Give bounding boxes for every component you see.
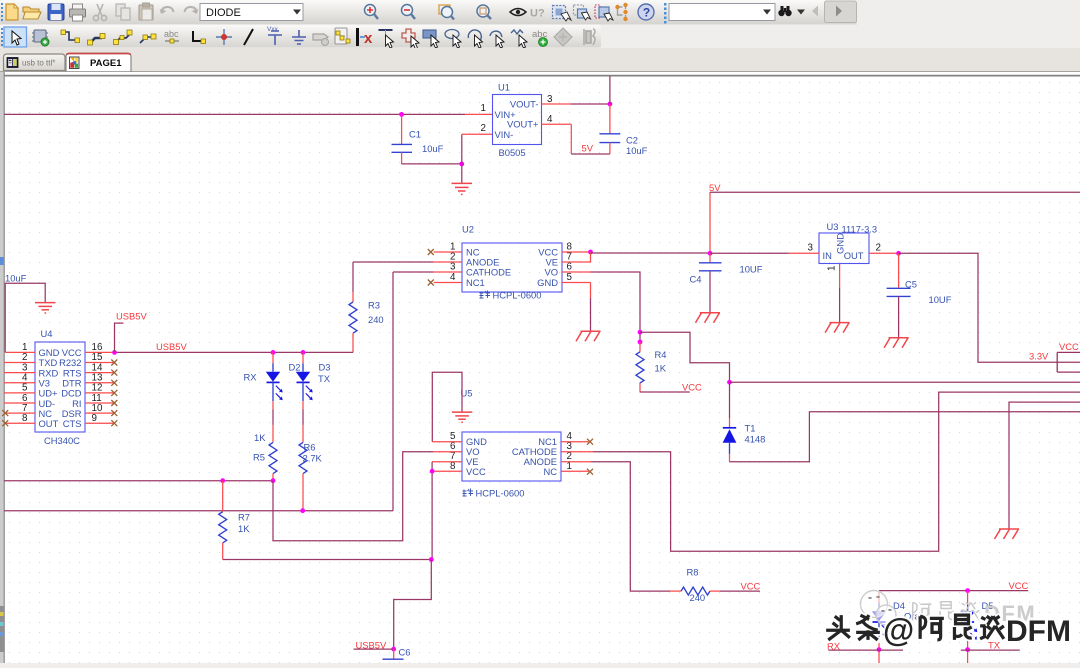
- node junction USB5V label: [112, 350, 117, 355]
- wire long to right edge (row 382): [730, 381, 1080, 383]
- svg-text:4: 4: [547, 114, 553, 125]
- wire U3 out to 3.3V box: [899, 253, 1080, 362]
- pin 1 U2 stub: [434, 251, 462, 253]
- svg-text:DFM: DFM: [1006, 615, 1071, 648]
- node junction VCC/VE: [588, 250, 593, 255]
- wire T1 bottom loop to right edge (row 412): [730, 412, 1080, 462]
- svg-text:USB5V: USB5V: [156, 341, 187, 352]
- svg-text:1: 1: [481, 103, 486, 114]
- capacitor C4: [690, 253, 763, 312]
- icon: paste (disabled): [139, 3, 153, 20]
- svg-text:2: 2: [481, 123, 486, 134]
- wire C4 to U3 pin3: [710, 252, 789, 254]
- wire VO right and down: [591, 272, 641, 332]
- icon: junction: [216, 29, 232, 45]
- wire down to USB5V bottom: [394, 560, 432, 650]
- icon: wire: [61, 30, 80, 43]
- svg-text:PAGE1: PAGE1: [90, 58, 122, 69]
- capacitor C6 (partial at bottom): [383, 646, 411, 659]
- net TX stub: [961, 649, 1020, 651]
- icon: print: [70, 4, 86, 21]
- svg-text:CH340C: CH340C: [44, 435, 80, 446]
- wire VCC row bottom right: [879, 590, 1028, 592]
- icon: slash line: [244, 29, 253, 45]
- ground symbol (slant) right: [995, 529, 1020, 539]
- ground symbol (slant) below C4: [696, 313, 721, 323]
- pin 1 U4 stub: [5, 351, 35, 353]
- no-connect X pin4 U5: [587, 439, 593, 445]
- net 5V right: vertical: [709, 192, 711, 253]
- LED D4: [872, 591, 921, 663]
- svg-text:U?: U?: [530, 8, 545, 20]
- icon: gnd port: [292, 30, 306, 44]
- pin 6 U2 stub: [562, 271, 591, 273]
- svg-text:2: 2: [876, 243, 881, 254]
- combobox find: [669, 4, 775, 21]
- svg-text:1K: 1K: [238, 523, 250, 534]
- wire ANODE from R3 column: [353, 261, 434, 263]
- svg-text:C2: C2: [626, 135, 638, 146]
- capacitor C5: [887, 253, 952, 337]
- svg-text:OUT: OUT: [39, 418, 59, 429]
- pin 7 U5 stub: [432, 461, 462, 463]
- wire U5 VE/VCC column down: [431, 462, 433, 560]
- wire CATHODE from x393 column: [393, 271, 434, 273]
- icon: L wire: [193, 31, 206, 44]
- wire to ground below C1: [461, 164, 463, 183]
- net VCC stub right of R8: [720, 590, 760, 592]
- wire RX row to left edge: [4, 480, 273, 482]
- wire GND U2 down: [590, 283, 592, 299]
- inactive tab: usb to ttl*: [4, 54, 66, 71]
- pin 5 U4 wire: [4, 392, 35, 394]
- svg-text:8: 8: [450, 461, 456, 472]
- sheet top border: [4, 75, 1080, 77]
- icon: netlabel abc: [164, 29, 179, 43]
- wire TX row to left edge: [4, 510, 393, 512]
- icon: binoculars: [778, 6, 791, 16]
- svg-text:10UF: 10UF: [740, 264, 763, 275]
- svg-text:6: 6: [567, 262, 573, 273]
- label U2 (CJK fake glyphs + HCPL-0600): [480, 290, 542, 301]
- svg-text:B0505: B0505: [499, 147, 526, 158]
- wire C2 node up to sheet top: [609, 76, 611, 104]
- pin 8 U4 stub with no-connect X: [6, 422, 35, 424]
- icon: zoom region: [439, 5, 454, 20]
- svg-text:USB5V: USB5V: [116, 311, 147, 322]
- svg-text:USB5V: USB5V: [356, 639, 387, 650]
- svg-text:T1: T1: [745, 423, 756, 434]
- node junction D3 top: [301, 350, 306, 355]
- svg-text:DIODE: DIODE: [206, 7, 241, 19]
- icon: copy (disabled): [116, 4, 130, 20]
- net 5V right: long horizontal to edge: [710, 191, 1080, 193]
- svg-text:10uF: 10uF: [5, 273, 27, 284]
- icon: bus: [88, 34, 106, 46]
- main watermark: white glow layer: [826, 615, 1004, 640]
- svg-text:U4: U4: [41, 328, 53, 339]
- wire USB5V row (U4 pin16 to R3 bottom): [115, 351, 354, 353]
- svg-text:abc: abc: [164, 29, 179, 39]
- icon: redo (disabled): [185, 7, 199, 14]
- svg-text:x: x: [364, 30, 373, 47]
- icon: zoom fit: [477, 5, 491, 19]
- svg-text:8: 8: [22, 413, 28, 424]
- svg-text:Vxx: Vxx: [267, 26, 279, 33]
- icon: paste selection: [595, 5, 613, 21]
- icon: bracket group (disabled): [584, 29, 595, 45]
- svg-text:R4: R4: [655, 349, 667, 360]
- icon: zoom out: [402, 5, 416, 20]
- wire pin4 down and right (5V): [570, 124, 572, 154]
- svg-text:10uF: 10uF: [422, 143, 444, 154]
- no-connect X pin1 U2: [428, 249, 434, 255]
- pin 1 U5 stub: [561, 470, 590, 472]
- svg-text:TX: TX: [988, 640, 1001, 651]
- no-connect X pin1 U5: [587, 469, 593, 475]
- svg-text:NC1: NC1: [466, 277, 485, 288]
- net RX stub: [828, 649, 903, 651]
- node junction R7 top: [220, 478, 225, 483]
- icon: eye: [510, 9, 526, 16]
- svg-text:3.3V: 3.3V: [1029, 351, 1049, 362]
- icon: zoom in: [365, 5, 379, 20]
- wire U5 GND hook: [432, 372, 462, 441]
- wire ANODE net down to R8: [591, 462, 670, 591]
- icon: diamond (disabled): [554, 28, 572, 46]
- icon: new document: [6, 4, 18, 20]
- capacitor C2: [600, 104, 648, 156]
- icon: undo (disabled): [160, 7, 174, 14]
- svg-text:CTS: CTS: [63, 418, 82, 429]
- svg-text:240: 240: [368, 314, 384, 325]
- node junction U3 out / C5: [896, 251, 901, 256]
- pin 5 U5 stub: [432, 441, 462, 443]
- dotted separator: [664, 3, 667, 24]
- node junction D2 top: [271, 350, 276, 355]
- pin 8 U2 stub: [562, 251, 591, 253]
- svg-text:5V: 5V: [582, 143, 594, 154]
- svg-text:RX: RX: [244, 372, 258, 383]
- pin 2 U4 wire: [4, 362, 35, 364]
- resistor R5: [253, 432, 277, 481]
- active tab: PAGE1: [66, 53, 131, 72]
- connector box at right edge: [1057, 352, 1080, 372]
- optocoupler U5 HCPL-0600: [450, 431, 572, 481]
- wire row 402 from right edge to ground: [1009, 402, 1080, 529]
- node junction R6 bottom: [300, 508, 305, 513]
- svg-text:5: 5: [567, 272, 573, 283]
- left panel strip: [0, 606, 4, 652]
- svg-text:1K: 1K: [254, 432, 266, 443]
- svg-text:HCPL-0600: HCPL-0600: [493, 290, 542, 301]
- forward arrow button: [825, 1, 857, 23]
- svg-text:10UF: 10UF: [929, 294, 952, 305]
- svg-text:VCC: VCC: [682, 382, 702, 393]
- svg-text:VOUT-: VOUT-: [510, 99, 539, 110]
- pin 7 U4 stub with no-connect X: [6, 412, 35, 414]
- svg-text:4: 4: [450, 272, 456, 283]
- wire R5 net to U5 VO: [273, 452, 434, 541]
- LED D2: [244, 352, 301, 442]
- wire R7 bottom row: [223, 559, 432, 561]
- svg-text:VCC: VCC: [741, 581, 761, 592]
- pin 2 U5 stub: [561, 461, 591, 463]
- icon: power port: [267, 26, 282, 45]
- ground symbol (bar style) U5: [452, 412, 473, 422]
- svg-text:D3: D3: [319, 361, 331, 372]
- pin 2 U2 stub: [434, 261, 462, 263]
- capacitor 10uF at U4 pin1: [5, 273, 56, 353]
- IC U4 CH340C: [22, 328, 103, 446]
- svg-text:usb to ttl*: usb to ttl*: [22, 59, 55, 68]
- LED D3: [296, 352, 331, 442]
- ground symbol (bar style): [452, 183, 473, 194]
- resistor R8: [670, 566, 720, 603]
- regulator U3 1117-3.3: [808, 221, 881, 271]
- svg-text:GND: GND: [835, 233, 846, 254]
- wire VIN+ long horizontal: [4, 113, 465, 115]
- icon: sheet with polyline: [335, 28, 350, 44]
- svg-text:TX: TX: [318, 373, 331, 384]
- main watermark: dark strokes: [826, 615, 1004, 640]
- LED D5: [960, 591, 993, 663]
- wire C1 bottom to VIN-: [402, 163, 462, 165]
- icon: hierarchy: [615, 3, 627, 21]
- wire pin3 to C2 node: [571, 103, 610, 105]
- svg-text:R8: R8: [687, 566, 699, 577]
- node junction C1/VIN+: [399, 112, 404, 117]
- ghost watermark text (CJK approx + DFM): [913, 601, 1036, 626]
- pin 5 U2 stub: [562, 282, 591, 284]
- no-connect X pin4 U2: [428, 280, 434, 286]
- ground symbol (slant) below U3: [825, 323, 850, 333]
- net USB5V bottom stub: [354, 648, 394, 650]
- node junction VIN- / ground: [459, 162, 464, 167]
- icon: net identifier oval (grey): [313, 34, 329, 46]
- svg-text:VCC: VCC: [1059, 341, 1079, 352]
- wire CATHODE column down: [392, 272, 394, 511]
- wire U2 VCC to 5V/C4 node: [591, 252, 711, 254]
- node junction pin3/C2: [608, 102, 613, 107]
- svg-text:VCC: VCC: [1009, 580, 1029, 591]
- svg-text:1K: 1K: [655, 363, 667, 374]
- canvas left border: [3, 72, 5, 663]
- svg-text:NC: NC: [543, 466, 557, 477]
- svg-text:VCC: VCC: [466, 466, 486, 477]
- node junction T1 top: [727, 380, 732, 385]
- pin 4 U2 stub: [434, 282, 462, 284]
- svg-text:1: 1: [567, 461, 572, 472]
- pin 16 U4 stub: [85, 351, 115, 353]
- svg-text:1: 1: [827, 266, 838, 271]
- svg-text:4148: 4148: [745, 434, 766, 445]
- pin 1 U1 stub: [465, 113, 493, 115]
- wire CATHODE net long loop to right edge (row 392): [593, 392, 1080, 551]
- back arrow (disabled): [812, 6, 818, 17]
- svg-text:U3: U3: [827, 221, 839, 232]
- pin 8 U5 stub: [432, 470, 462, 472]
- icon: select grid part: [553, 6, 572, 22]
- svg-text:R5: R5: [253, 451, 265, 462]
- pin 3 U4 wire: [4, 372, 35, 374]
- icon: abc plus: [532, 29, 548, 47]
- left gutter: [0, 72, 4, 663]
- net label USB5V stub (upper): [115, 323, 124, 352]
- pin 7 U2 stub + tie to pin8: [562, 252, 591, 262]
- wire step VO net to right edge: [640, 332, 730, 382]
- icon: cursor with arc: [468, 30, 482, 48]
- label U5 (CJK fake glyphs + HCPL-0600): [463, 488, 525, 499]
- ground symbol (slant) below C5: [884, 338, 909, 348]
- node junction TX row: [965, 647, 970, 652]
- svg-text:U2: U2: [462, 224, 474, 235]
- optocoupler U2 HCPL-0600: [450, 224, 572, 293]
- icon: cut (disabled): [93, 4, 106, 21]
- icon: signal harness: [114, 30, 133, 45]
- svg-text:D2: D2: [289, 361, 301, 372]
- icon: cursor with arc2: [490, 31, 504, 48]
- ground symbol (slant style) below U2 pin5: [576, 331, 601, 341]
- node junction USB5V bottom: [391, 647, 396, 652]
- icon: cursor with zigzag: [511, 30, 527, 48]
- icon: place part: [32, 30, 49, 46]
- svg-text:3: 3: [450, 262, 456, 273]
- pin 4 U1 stub: [542, 123, 572, 125]
- svg-text:IN: IN: [823, 250, 832, 261]
- svg-text:C1: C1: [409, 129, 421, 140]
- svg-text:?: ?: [643, 6, 650, 20]
- pin 4 U5 stub: [561, 441, 590, 443]
- pin 6 U5 stub: [434, 451, 462, 453]
- svg-text:3: 3: [547, 94, 553, 105]
- node junction R7 row: [429, 557, 434, 562]
- svg-text:C4: C4: [690, 273, 702, 284]
- pin 1 U3 down wire: [839, 264, 841, 289]
- icon: wire entry: [140, 34, 156, 43]
- pin 3 U2 stub: [434, 271, 462, 273]
- icon: cursor with blue rect: [423, 30, 439, 48]
- combobox DIODE: [200, 4, 303, 21]
- svg-text:5V: 5V: [709, 182, 721, 193]
- op module U1 B0505: [481, 82, 553, 159]
- node junction D5 top: [965, 588, 970, 593]
- pin 4 U4 wire: [4, 382, 35, 384]
- pin 6 U4 wire: [4, 402, 35, 404]
- svg-text:GND: GND: [537, 277, 558, 288]
- svg-text:9: 9: [92, 413, 97, 424]
- svg-text:VOUT+: VOUT+: [507, 119, 539, 130]
- grip row2: [1, 28, 3, 46]
- ghost logo circles: [861, 591, 897, 626]
- pin 2 U3 stub: [869, 252, 899, 254]
- icon: help: [638, 4, 654, 20]
- svg-text:1117-3.3: 1117-3.3: [842, 224, 878, 235]
- pin 3 U5 stub: [561, 451, 593, 453]
- svg-text:U1: U1: [498, 82, 510, 93]
- selected cursor tool button: [4, 27, 27, 47]
- svg-text:HCPL-0600: HCPL-0600: [476, 488, 525, 499]
- svg-text:VIN-: VIN-: [495, 129, 514, 140]
- wire R4 bottom VCC stub: [640, 391, 690, 393]
- svg-text:240: 240: [690, 592, 706, 603]
- capacitor C1: [392, 114, 444, 163]
- resistor R7: [219, 481, 251, 560]
- pin 2 U1 stub: [462, 133, 493, 135]
- svg-text:10uF: 10uF: [626, 145, 648, 156]
- icon: cursor with red plus: [402, 29, 419, 49]
- svg-text:R7: R7: [238, 511, 250, 522]
- grip row1: [1, 3, 3, 21]
- icon: open folder: [23, 7, 41, 19]
- icon: copy selection: [574, 5, 591, 20]
- pin 3 U3 stub: [789, 252, 819, 254]
- node junction RX row: [877, 647, 882, 652]
- svg-text:R3: R3: [368, 300, 380, 311]
- svg-text:OUT: OUT: [844, 250, 864, 261]
- icon: cursor with line: [379, 30, 394, 48]
- node junction U5 VCC: [430, 469, 435, 474]
- svg-text:C5: C5: [905, 278, 917, 289]
- resistor R6: [299, 441, 323, 510]
- pins 15..9 U4 stubs with no-connect X: [85, 360, 117, 427]
- resistor R3: [349, 262, 384, 352]
- svg-text:@: @: [883, 612, 914, 648]
- node junction 5V/C4: [708, 251, 713, 256]
- icon: delete |X: [356, 28, 373, 47]
- svg-text:C6: C6: [399, 646, 411, 657]
- diode T1 4148: [723, 382, 766, 462]
- wire VIN- vertical: [461, 134, 463, 164]
- pin 3 U1 stub: [542, 103, 571, 105]
- icon: save floppy: [48, 4, 64, 20]
- svg-text:R6: R6: [304, 441, 316, 452]
- node junction R5 bottom: [271, 478, 276, 483]
- svg-text:2.7K: 2.7K: [303, 452, 323, 463]
- small dropdown: [797, 10, 805, 15]
- icon: cursor with ellipse: [445, 30, 461, 49]
- resistor R4: [636, 330, 667, 392]
- svg-text:3: 3: [808, 243, 814, 254]
